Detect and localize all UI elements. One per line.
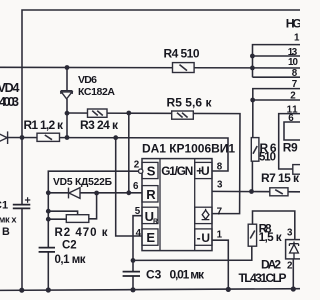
svg-text:R5 5,6 к: R5 5,6 к — [167, 96, 213, 110]
svg-text:2: 2 — [134, 160, 140, 171]
svg-text:-U: -U — [197, 231, 211, 245]
svg-text:VD4: VD4 — [0, 81, 20, 95]
svg-text:R3 24 к: R3 24 к — [80, 118, 119, 132]
svg-text:R: R — [153, 218, 158, 225]
svg-text:S: S — [147, 164, 156, 179]
svg-text:2: 2 — [290, 91, 296, 102]
svg-text:0,1 мк: 0,1 мк — [55, 254, 86, 266]
svg-text:КС182А: КС182А — [78, 86, 115, 98]
svg-text:DA2: DA2 — [261, 257, 281, 271]
svg-text:R4 510: R4 510 — [164, 46, 200, 60]
svg-text:2: 2 — [287, 260, 293, 271]
svg-text:10: 10 — [288, 57, 299, 68]
svg-text:510: 510 — [259, 152, 276, 164]
svg-text:0,01 мк: 0,01 мк — [170, 268, 205, 282]
svg-text:TL431CLP: TL431CLP — [239, 271, 287, 285]
svg-text:7: 7 — [292, 79, 298, 90]
svg-text:G1/GN: G1/GN — [161, 164, 193, 178]
svg-text:6: 6 — [288, 113, 294, 124]
svg-text:5: 5 — [135, 206, 141, 217]
svg-text:E: E — [146, 230, 155, 245]
svg-text:3: 3 — [287, 227, 293, 238]
svg-text:4: 4 — [136, 228, 142, 239]
svg-text:8: 8 — [292, 68, 298, 79]
svg-text:8: 8 — [217, 162, 223, 173]
svg-text:+U: +U — [196, 164, 210, 178]
svg-text:R1 1,2 к: R1 1,2 к — [24, 118, 64, 132]
svg-text:R7 15 к: R7 15 к — [261, 171, 300, 185]
svg-text:DA1 КР1006ВИ1: DA1 КР1006ВИ1 — [142, 141, 235, 155]
svg-text:С2: С2 — [62, 240, 77, 252]
svg-text:R9: R9 — [283, 141, 298, 155]
svg-text:4003: 4003 — [0, 95, 19, 109]
svg-text:3: 3 — [217, 179, 223, 190]
svg-text:VD6: VD6 — [78, 74, 97, 86]
svg-text:7: 7 — [217, 206, 223, 217]
svg-text:1,5 к: 1,5 к — [259, 230, 282, 244]
svg-text:С3: С3 — [146, 268, 162, 282]
svg-text:1: 1 — [294, 32, 300, 43]
svg-text:мк х: мк х — [0, 214, 17, 224]
svg-text:В: В — [2, 226, 10, 238]
svg-text:VD5 КД522Б: VD5 КД522Б — [53, 177, 113, 188]
svg-text:С1: С1 — [0, 199, 8, 211]
svg-text:R2 470 к: R2 470 к — [55, 227, 108, 239]
svg-text:HG1: HG1 — [286, 17, 300, 31]
svg-text:1: 1 — [217, 229, 223, 240]
svg-text:R: R — [146, 187, 156, 202]
svg-text:6: 6 — [133, 181, 139, 192]
